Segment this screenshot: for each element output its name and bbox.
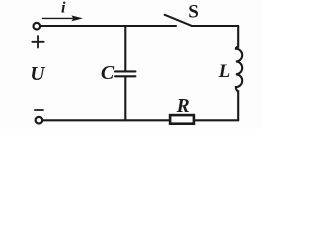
svg-text:L: L xyxy=(218,61,231,82)
svg-text:R: R xyxy=(176,96,190,117)
svg-text:i: i xyxy=(61,0,66,17)
svg-text:C: C xyxy=(101,62,115,84)
svg-text:S: S xyxy=(188,1,199,22)
svg-text:U: U xyxy=(30,64,45,85)
